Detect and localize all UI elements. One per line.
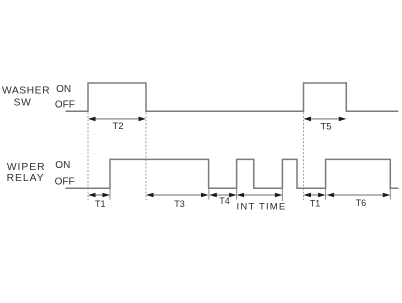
dashed extension line at washer pulse1 falling edge [145,113,147,201]
svg-text:T2: T2 [112,121,123,132]
svg-text:T6: T6 [356,198,367,208]
dashed extension line at washer pulse2 rising edge [303,113,305,201]
wiper relay waveform [66,159,399,188]
dimension arrow T2 [88,117,146,122]
svg-text:T3: T3 [174,199,185,209]
dimension arrow T1 (second) [304,193,326,198]
dimension arrow INT TIME [237,193,283,198]
tick at wiper last turn-off edge (T6 end) [389,188,391,200]
tick at wiper turn-off edge (T3/T4 boundary) [208,188,210,200]
svg-text:ON: ON [56,84,71,95]
svg-text:T4: T4 [219,196,230,206]
tick at wiper fourth turn-on edge (T1/T6 boundary) [325,188,327,200]
dimension arrow T6 [327,193,391,198]
svg-text:T1: T1 [310,199,321,209]
svg-text:T1: T1 [95,199,106,209]
label WIPER RELAY [7,162,46,184]
label WASHER SW [2,86,50,109]
svg-text:OFF: OFF [55,99,75,110]
svg-text:SW: SW [14,98,32,109]
svg-text:WIPER: WIPER [7,162,46,173]
tick at wiper third turn-on edge (INT TIME end) [281,188,283,201]
svg-text:RELAY: RELAY [7,173,45,184]
dimension arrow T3 [146,193,209,198]
tick at wiper turn-on edge (T1 end) [109,188,111,200]
tick at wiper second turn-on edge (T4/INT TIME boundary) [236,188,238,200]
svg-text:T5: T5 [320,122,331,133]
dimension arrow T4 [209,193,236,198]
svg-text:WASHER: WASHER [2,86,50,97]
svg-text:INT TIME: INT TIME [237,201,287,212]
dimension arrow T5 [304,117,347,122]
washer SW waveform [66,83,399,111]
dashed extension line at washer pulse1 rising edge [87,113,89,201]
svg-text:ON: ON [55,160,70,171]
svg-text:OFF: OFF [55,177,75,188]
dimension arrow T1 (first) [88,193,110,198]
